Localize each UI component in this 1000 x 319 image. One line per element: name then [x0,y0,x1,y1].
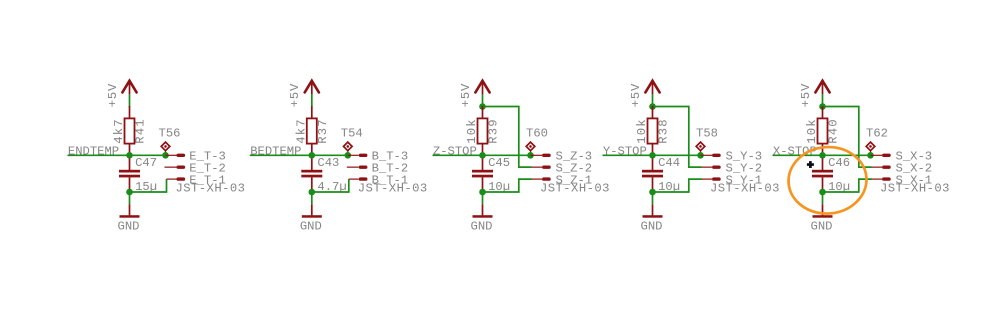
wire +5V feed to connector pin 2 (S_Y-2) [653,107,702,168]
svg-text:T62: T62 [866,127,888,141]
test point T62 [866,127,888,156]
svg-text:JST-XH-03: JST-XH-03 [358,182,428,196]
wire +5V feed to connector pin 2 (S_Z-2) [483,107,532,168]
svg-text:JST-XH-03: JST-XH-03 [710,182,780,196]
wire C47 bottom to connector pin 1 (E_T-1) [130,179,167,192]
wire C46 bottom to connector pin 1 (S_X-1) [823,179,873,192]
junction node +5V feed at R40 top [819,103,826,110]
capacitor C45 value 10µ [472,155,510,194]
svg-text:+5V: +5V [799,83,813,107]
wire net Z-STOP [433,154,531,156]
ground symbol GND (R38 block) [641,204,663,233]
power symbol +5V (above R40) [799,81,830,108]
ground symbol GND (R41 block) [118,204,140,233]
wire C44 bottom to ground [652,192,654,204]
connector pin 3 (E_T-3) [166,150,226,164]
svg-text:C44: C44 [658,156,680,170]
wire C45 bottom to connector pin 1 (S_Z-1) [483,179,533,192]
wire +5V feed to connector pin 2 (S_X-2) [823,107,872,168]
svg-text:R37: R37 [316,118,330,144]
ground symbol GND (R40 block) [811,204,833,233]
svg-text:R41: R41 [134,118,148,144]
junction node at C47 bottom [126,189,133,196]
junction node at T58 [697,152,704,159]
annotation highlight ellipse around C46 [786,144,868,216]
junction node at T54 [345,152,352,159]
svg-text:GND: GND [811,219,833,233]
svg-text:GND: GND [471,219,493,233]
connector pin 2 (B_T-2) [347,161,408,175]
junction node at T62 [867,152,874,159]
junction node at C44 bottom [649,189,656,196]
wire +5V to R41 [129,94,131,107]
svg-text:C47: C47 [135,156,157,170]
wire C44 bottom to connector pin 1 (S_Y-1) [653,179,703,192]
connector pin 1 (E_T-1) [167,173,226,187]
junction node +5V feed at R39 top [479,103,486,110]
svg-text:GND: GND [641,219,663,233]
connector pin 1 (S_X-1) [872,173,932,187]
capacitor C44 value 10µ [642,155,680,194]
wire net BEDTEMP [250,154,348,156]
svg-text:ENDTEMP: ENDTEMP [68,145,119,159]
svg-text:GND: GND [300,219,322,233]
svg-text:4k7: 4k7 [295,118,309,144]
wire +5V to R39 [482,94,484,107]
svg-text:+5V: +5V [629,83,643,107]
capacitor C43 value 4.7µ [301,155,346,194]
svg-text:10k: 10k [805,118,819,144]
svg-text:T54: T54 [341,127,363,141]
svg-text:+5V: +5V [106,83,120,107]
connector pin 1 (B_T-1) [349,173,408,187]
svg-text:GND: GND [118,219,140,233]
junction node +5V feed at R38 top [649,103,656,110]
svg-text:JST-XH-03: JST-XH-03 [540,182,610,196]
connector pin 2 (S_Y-2) [702,161,763,175]
junction node at C43 bottom [309,189,316,196]
svg-text:C43: C43 [317,156,339,170]
svg-text:R39: R39 [487,118,501,144]
wire C43 bottom to connector pin 1 (B_T-1) [312,179,349,192]
test point T54 [341,127,363,156]
wire net Y-STOP [603,154,701,156]
resistor R40 value 10k [805,106,841,155]
connector pin 3 (S_Y-3) [701,150,763,164]
svg-text:+5V: +5V [288,83,302,107]
wire +5V to R40 [822,94,824,107]
svg-text:C46: C46 [828,156,850,170]
wire net ENDTEMP [68,154,166,156]
test point T58 [696,127,718,156]
ground symbol GND (R37 block) [300,204,322,233]
junction node at R37 bottom [309,152,316,159]
connector pin 2 (S_Z-2) [532,161,593,175]
svg-text:10k: 10k [465,118,479,144]
wire net X-STOP [773,154,871,156]
svg-text:JST-XH-03: JST-XH-03 [880,182,950,196]
svg-text:BEDTEMP: BEDTEMP [250,145,301,159]
junction node at T56 [162,152,169,159]
junction node at R41 bottom [126,152,133,159]
svg-text:Z-STOP: Z-STOP [433,145,477,159]
wire +5V to R38 [652,94,654,107]
connector pin 3 (S_Z-3) [531,150,593,164]
svg-text:Y-STOP: Y-STOP [603,145,647,159]
svg-text:JST-XH-03: JST-XH-03 [176,182,246,196]
resistor R37 value 4k7 [295,106,331,155]
power symbol +5V (above R41) [106,81,137,108]
capacitor C47 value 15µ [119,155,157,194]
svg-text:+5V: +5V [459,83,473,107]
test point T60 [526,127,548,156]
junction node at R39 bottom [479,152,486,159]
junction node at T60 [527,152,534,159]
wire C46 bottom to ground [822,192,824,204]
connector pin 3 (B_T-3) [348,150,408,164]
connector pin 1 (S_Z-1) [532,173,592,187]
svg-text:C45: C45 [488,156,510,170]
svg-text:T56: T56 [159,127,181,141]
capacitor C46 value 10µ [812,155,850,194]
test point T56 [159,127,181,156]
junction node at R40 bottom [819,152,826,159]
power symbol +5V (above R37) [288,81,319,108]
svg-text:4k7: 4k7 [112,118,126,144]
junction node at C46 bottom [819,189,826,196]
resistor R38 value 10k [635,106,671,155]
svg-text:R40: R40 [827,118,841,144]
resistor R39 value 10k [465,106,501,155]
connector pin 2 (S_X-2) [872,161,933,175]
junction node at R38 bottom [649,152,656,159]
ground symbol GND (R39 block) [471,204,493,233]
power symbol +5V (above R38) [629,81,660,108]
annotation polarity plus mark at C46 [807,161,814,168]
wire C47 bottom to ground [129,192,131,204]
connector pin 3 (S_X-3) [871,150,933,164]
connector pin 2 (E_T-2) [165,161,226,175]
wire C43 bottom to ground [311,192,313,204]
svg-text:T58: T58 [696,127,718,141]
wire +5V to R37 [311,94,313,107]
power symbol +5V (above R39) [459,81,490,108]
svg-text:10k: 10k [635,118,649,144]
svg-text:T60: T60 [526,127,548,141]
junction node at C45 bottom [479,189,486,196]
svg-text:R38: R38 [657,118,671,144]
connector pin 1 (S_Y-1) [702,173,762,187]
resistor R41 value 4k7 [112,106,148,155]
wire C45 bottom to ground [482,192,484,204]
